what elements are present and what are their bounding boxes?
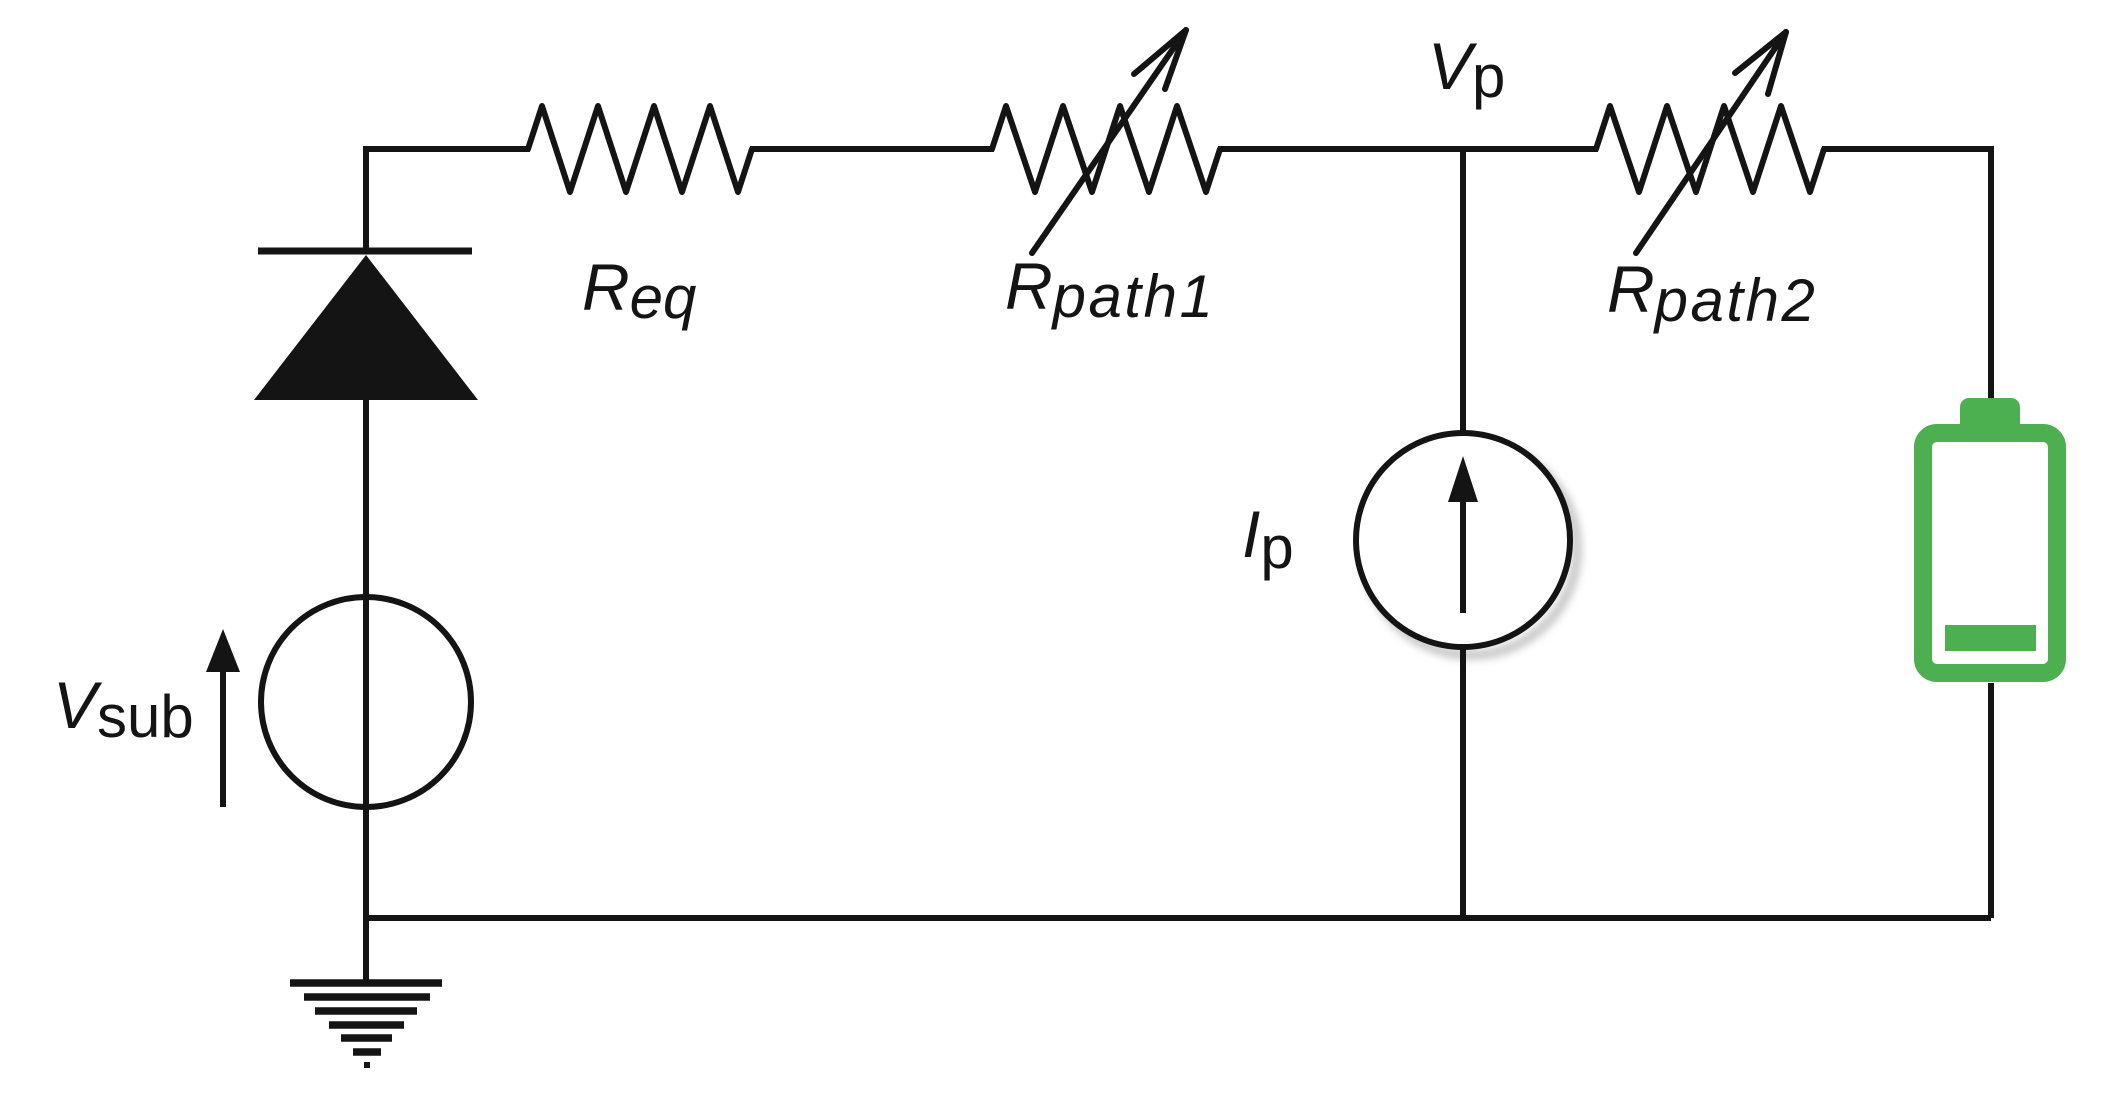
svg-text:Vsub: Vsub xyxy=(53,668,194,750)
current source Ip drop shadow xyxy=(1365,443,1577,655)
battery B1 charge level bar xyxy=(1945,625,2036,651)
wire: diode anode through Vsub down to ground xyxy=(363,398,369,983)
svg-text:Req: Req xyxy=(582,250,696,331)
svg-text:Ip: Ip xyxy=(1242,497,1294,581)
svg-text:Rpath1: Rpath1 xyxy=(1005,249,1215,330)
variable resistor Rpath2 zigzag xyxy=(1596,106,1824,192)
wire: battery to bottom rail xyxy=(1988,683,1994,918)
voltage source Vsub circle xyxy=(261,597,471,807)
wire: node Vp down to current source Ip xyxy=(1460,149,1466,434)
ground symbol xyxy=(290,983,442,1065)
variable resistor Rpath1 zigzag xyxy=(992,106,1220,192)
diode D1 triangle (anode) xyxy=(254,255,478,400)
wire: bottom rail xyxy=(366,915,1991,921)
battery B1 body outline xyxy=(1923,433,2057,673)
resistor Req zigzag xyxy=(528,106,752,192)
arrow of variable resistor Rpath1 xyxy=(1032,30,1186,253)
wire: Ip to bottom rail xyxy=(1460,647,1466,918)
Vsub polarity arrow xyxy=(206,629,240,807)
svg-text:Vp: Vp xyxy=(1428,29,1505,110)
diode D1 cathode bar xyxy=(258,248,472,255)
svg-text:Rpath2: Rpath2 xyxy=(1607,252,1817,334)
arrow of variable resistor Rpath2 xyxy=(1636,32,1786,253)
wire: Req to Rpath1 xyxy=(750,146,994,152)
wire: left vertical + top rail left segment xyxy=(366,149,530,253)
wire: Rpath2 to top-right corner down to battery xyxy=(1822,149,1991,400)
current source Ip circle xyxy=(1356,433,1570,647)
wire: Rpath1 to Rpath2 through node Vp xyxy=(1218,146,1598,152)
Ip arrow inside source xyxy=(1448,456,1478,613)
battery B1 (green) terminal nub xyxy=(1960,398,2020,438)
